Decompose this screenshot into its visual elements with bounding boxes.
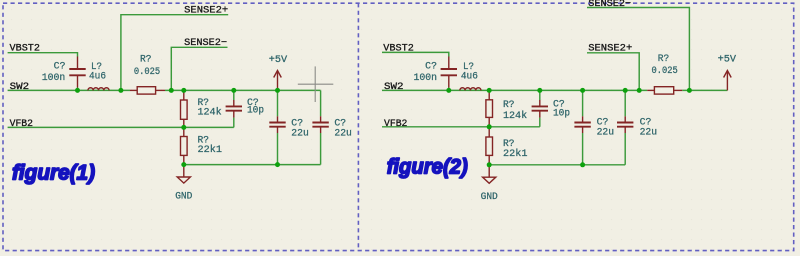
svg-text:SENSE2+: SENSE2+	[588, 42, 632, 54]
wire C? 22u #2 bottom	[320, 133, 322, 165]
capacitor C6 10p (fig2)	[532, 90, 548, 117]
junction C6 top (fig2)	[537, 88, 542, 93]
wire VFB2 up to C? 10p	[233, 118, 235, 128]
resistor R6 0.025 (fig2)	[647, 87, 682, 94]
capacitor C5 100n (fig2)	[441, 57, 457, 91]
node VBST2 wire (fig2)	[382, 52, 449, 56]
svg-text:22u: 22u	[640, 127, 658, 138]
junction R4 top (fig2)	[487, 88, 492, 93]
capacitor C7 22u (fig2)	[574, 116, 590, 133]
resistor R2 124k (fig1)	[181, 90, 188, 127]
junction SENSE2- tap (fig2)	[687, 88, 692, 93]
svg-text:R?: R?	[503, 99, 515, 110]
svg-text:0.025: 0.025	[134, 66, 160, 77]
svg-text:124k: 124k	[198, 107, 222, 118]
wire SENSE2- label line (fig2)	[587, 8, 689, 91]
svg-text:100n: 100n	[414, 72, 438, 83]
svg-text:GND: GND	[175, 191, 192, 202]
junction C5 at SW2 (fig2)	[446, 88, 451, 93]
resistor R3 22k1 (fig1)	[181, 127, 188, 164]
svg-text:VFB2: VFB2	[384, 118, 407, 130]
svg-text:22k1: 22k1	[198, 144, 223, 155]
power +5V (fig1)	[274, 71, 282, 91]
wire SENSE2+ label line	[121, 15, 228, 91]
svg-text:10p: 10p	[553, 108, 570, 119]
wire down to C? 22u #1 (fig2)	[582, 90, 584, 116]
capacitor C1 100n (fig1)	[69, 57, 85, 91]
resistor R1 0.025 (fig1)	[130, 87, 165, 94]
svg-text:SENSE2−: SENSE2−	[588, 0, 631, 10]
junction C3 bottom	[275, 162, 280, 167]
junction SENSE2+ tap	[118, 88, 123, 93]
junction +5V node	[275, 88, 280, 93]
wire R? right to +5V (fig2)	[682, 89, 727, 91]
svg-text:VBST2: VBST2	[383, 43, 414, 55]
capacitor C4 22u (fig1)	[312, 116, 328, 133]
junction GND node	[181, 162, 186, 167]
svg-text:R?: R?	[140, 53, 152, 64]
junction VFB2 node (fig2)	[487, 124, 492, 129]
capacitor C2 10p (fig1)	[226, 90, 242, 117]
inductor L2 4u6 (fig2)	[460, 88, 481, 91]
wire GND rail (fig2)	[489, 164, 625, 166]
svg-text:VBST2: VBST2	[10, 43, 41, 55]
svg-text:10p: 10p	[247, 105, 264, 116]
svg-text:GND: GND	[481, 191, 498, 202]
svg-text:22k1: 22k1	[503, 148, 528, 159]
capacitor C3 22u (fig1)	[269, 116, 285, 133]
wire SENSE2- label line	[171, 47, 227, 90]
wire SW2 to R? left	[8, 89, 130, 91]
wire C? 22u #2 bottom (fig2)	[624, 133, 626, 165]
junction SENSE2+ tap (fig2)	[637, 88, 642, 93]
svg-text:+5V: +5V	[269, 54, 288, 65]
resistor R4 124k (fig2)	[486, 90, 493, 126]
svg-text:22u: 22u	[334, 127, 352, 138]
junction VFB2 node	[181, 125, 186, 130]
inductor L1 4u6 (fig1)	[88, 88, 109, 91]
wire C? 22u #1 bottom (fig2)	[582, 133, 584, 165]
wire VFB2 up to C? 10p (fig2)	[539, 118, 541, 127]
cursor crosshair	[298, 66, 334, 102]
resistor R5 22k1 (fig2)	[486, 127, 493, 165]
ground (fig2)	[483, 165, 496, 184]
wire +5V node down to C? 22u #1	[277, 90, 279, 116]
junction C1 at SW2	[75, 88, 80, 93]
svg-text:R?: R?	[658, 53, 670, 64]
svg-text:SW2: SW2	[384, 81, 404, 93]
junction GND node (fig2)	[487, 162, 492, 167]
svg-text:0.025: 0.025	[651, 65, 677, 76]
svg-text:C?: C?	[425, 61, 437, 72]
junction C7 top (fig2)	[580, 88, 585, 93]
svg-text:22u: 22u	[291, 127, 309, 138]
wire R? right to corner	[165, 89, 321, 91]
node VBST2 wire (fig1)	[8, 53, 78, 57]
svg-text:124k: 124k	[503, 110, 527, 121]
junction C2 top	[231, 88, 236, 93]
junction C8 top (fig2)	[623, 88, 628, 93]
svg-text:+5V: +5V	[718, 54, 737, 65]
wire VFB2 (fig2)	[382, 126, 540, 128]
wire GND rail	[184, 164, 321, 166]
wire SENSE2+ label line (fig2)	[587, 53, 639, 91]
svg-text:figure(1): figure(1)	[12, 162, 95, 185]
svg-text:4u6: 4u6	[89, 71, 106, 82]
wire down to C? 22u #2	[320, 90, 322, 116]
svg-text:SENSE2−: SENSE2−	[184, 37, 227, 49]
svg-text:SW2: SW2	[10, 81, 30, 93]
ground (fig1)	[177, 165, 190, 184]
svg-text:100n: 100n	[42, 72, 66, 83]
svg-text:4u6: 4u6	[461, 71, 478, 82]
wire SW2 run (fig2)	[382, 89, 647, 91]
svg-text:SENSE2+: SENSE2+	[184, 5, 228, 17]
wire C? 22u #1 bottom	[277, 133, 279, 165]
junction R2 top	[181, 88, 186, 93]
svg-text:VFB2: VFB2	[10, 118, 33, 130]
power +5V (fig2)	[724, 71, 732, 91]
svg-text:figure(2): figure(2)	[387, 155, 468, 178]
capacitor C8 22u (fig2)	[617, 116, 633, 133]
junction C7 bottom (fig2)	[580, 162, 585, 167]
wire down to C? 22u #2 (fig2)	[624, 90, 626, 116]
svg-text:22u: 22u	[597, 127, 615, 138]
wire VFB2	[8, 126, 234, 128]
junction SENSE2- tap	[169, 88, 174, 93]
svg-text:C?: C?	[54, 61, 66, 72]
